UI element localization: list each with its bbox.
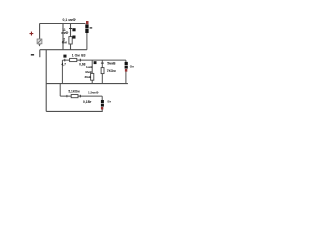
svg-text:1 Ом: 1 Ом [72, 54, 80, 58]
stage3 wire [60, 95, 102, 97]
svg-text:1мкВ: 1мкВ [86, 65, 93, 69]
battery GB1 plates [85, 24, 88, 28]
tick cap stage2 wire [79, 59, 81, 62]
bottom rail [46, 110, 102, 112]
wire mid rail [40, 49, 87, 51]
battery GB1 lead [86, 33, 88, 50]
svg-text:4,7: 4,7 [61, 62, 66, 66]
svg-text:Ом: Ом [62, 41, 68, 45]
battery3 red [101, 107, 103, 110]
svg-text:Вт: Вт [108, 100, 112, 104]
resistor R5 (stage3 horizontal) [71, 95, 78, 98]
plus tick col3 [101, 62, 104, 64]
wire long left vertical [45, 50, 47, 112]
svg-text:мкФ: мкФ [61, 31, 68, 35]
blob В col2 [94, 61, 97, 64]
battery3 plates [101, 100, 104, 103]
svg-text:1,5мкФ: 1,5мкФ [88, 91, 99, 95]
plus tick C [69, 28, 72, 30]
tick cap stage2 left [64, 59, 66, 62]
label input minus [31, 54, 34, 55]
battery2 top lead [125, 60, 127, 62]
tick cap stage3 left [66, 95, 68, 97]
stage3 left riser [59, 84, 61, 97]
resistor R3 (stage2 col2) [91, 73, 94, 80]
stage2 top wire [63, 59, 126, 61]
svg-text:0,1Вт: 0,1Вт [83, 100, 92, 104]
wire top rail [40, 23, 86, 25]
svg-text:0,1 мкФ: 0,1 мкФ [63, 18, 76, 22]
svg-text:48мВ: 48мВ [85, 70, 92, 74]
wire inner left vertical [62, 24, 64, 50]
wire input stub [39, 50, 41, 58]
battery3 bottom lead [101, 110, 103, 112]
wire mid column lower [70, 44, 72, 50]
svg-text:7КОм: 7КОм [107, 69, 116, 73]
battery2 plates [125, 62, 128, 65]
battery2 red [125, 69, 127, 72]
svg-text:80мВ: 80мВ [85, 75, 92, 79]
resistor R1 (vertical stage1) [69, 37, 72, 44]
cap square B [72, 36, 75, 39]
stage2 left vertical [61, 60, 63, 84]
input terminal square [63, 55, 66, 58]
svg-text:0,68: 0,68 [79, 62, 86, 66]
microphone BM1 [37, 39, 42, 44]
resistor R2 (stage2 horizontal) [70, 58, 77, 61]
svg-text:5,1КОм: 5,1КОм [68, 90, 80, 94]
svg-text:Он: Он [130, 65, 134, 69]
svg-text:5мкВ: 5мкВ [107, 61, 116, 65]
stage2 col3 vertical [101, 60, 103, 84]
label minus GB1 [90, 27, 93, 28]
resistor R4 (stage2 col3) [101, 68, 104, 74]
battery3 top lead [101, 96, 103, 100]
wire mid column upper [70, 24, 72, 37]
svg-text:ВЗ: ВЗ [81, 54, 85, 58]
battery GB1 red top [86, 21, 89, 24]
wire mic drop [39, 24, 41, 39]
stage2 bottom rail [46, 83, 128, 85]
polarity plus (red) [30, 32, 34, 36]
battery2 bottom lead [125, 72, 127, 84]
cap square A [72, 28, 75, 31]
mic arrow [38, 44, 40, 46]
tick cap stage3 wire [79, 95, 81, 98]
stage2 col2 vertical [91, 60, 93, 84]
